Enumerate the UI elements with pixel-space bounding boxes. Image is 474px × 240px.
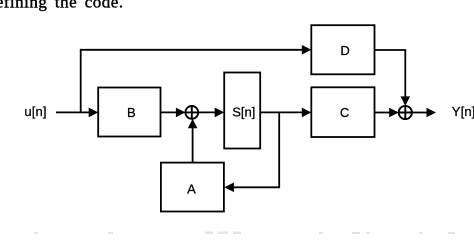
svg-text:S[n]: S[n] — [232, 104, 255, 119]
svg-text:efining the code.: efining the code. — [0, 0, 124, 12]
svg-text:C: C — [340, 105, 349, 120]
svg-text:u[n]: u[n] — [24, 104, 46, 119]
svg-text:Y[n]: Y[n] — [452, 104, 474, 119]
svg-text:D: D — [340, 43, 349, 58]
svg-text:B: B — [127, 105, 136, 120]
svg-text:A: A — [187, 181, 196, 196]
